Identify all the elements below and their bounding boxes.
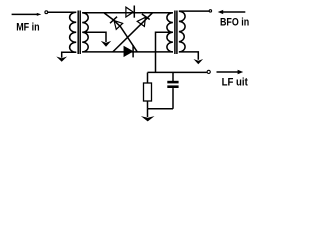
diode D2 on diagonal A bbox=[137, 14, 150, 27]
wire diagonal B bbox=[104, 13, 137, 52]
ground T1 center tap bbox=[101, 41, 111, 47]
svg-text:LF uit: LF uit bbox=[222, 77, 248, 89]
diode D4 bottom bbox=[124, 47, 132, 56]
input arrow BFO bbox=[222, 11, 245, 13]
wire bottom rail bbox=[82, 51, 173, 53]
wire diagonal A bbox=[113, 13, 153, 52]
terminal MF in bbox=[45, 11, 48, 14]
wire capacitor bottom lead bbox=[172, 88, 174, 109]
diode D3 on diagonal B bbox=[110, 17, 123, 30]
output arrowhead LF bbox=[238, 70, 244, 74]
wire resistor top lead bbox=[147, 73, 149, 84]
ground T1 primary bbox=[56, 57, 67, 62]
wire T1 center tap bbox=[83, 32, 106, 42]
input arrow MF bbox=[12, 13, 38, 15]
wire output node bbox=[148, 71, 207, 73]
terminal LF uit bbox=[207, 70, 210, 73]
output arrow LF bbox=[217, 71, 240, 73]
svg-text:MF in: MF in bbox=[16, 22, 40, 34]
capacitor C1 bbox=[167, 81, 178, 84]
wire MF terminal to T1 primary bbox=[48, 11, 76, 13]
wire T2 primary to BFO terminal bbox=[179, 10, 209, 12]
ground T2 primary bbox=[194, 59, 204, 64]
wire T1 primary bottom bbox=[62, 52, 76, 58]
transformer T2 secondary winding bbox=[167, 13, 173, 52]
terminal BFO in bbox=[209, 10, 211, 12]
transformer T1 primary winding bbox=[70, 12, 77, 52]
wire resistor bottom lead bbox=[147, 101, 149, 109]
transformer T1 core bbox=[77, 11, 79, 55]
ground output network bbox=[141, 116, 155, 121]
input arrowhead BFO bbox=[218, 10, 224, 14]
diode D1 top bbox=[126, 7, 133, 17]
wire T2 center tap bbox=[156, 32, 173, 72]
wire top rail bbox=[82, 12, 173, 14]
wire capacitor top lead bbox=[172, 73, 174, 82]
resistor R1 bbox=[144, 83, 152, 101]
input arrowhead MF bbox=[37, 13, 42, 16]
wire T2 primary bottom bbox=[179, 52, 198, 60]
transformer T2 core bbox=[174, 11, 176, 55]
wire ground stem bbox=[147, 109, 149, 117]
transformer T2 primary winding bbox=[179, 11, 185, 52]
transformer T1 secondary winding bbox=[82, 13, 88, 52]
wire ground bus bbox=[148, 108, 174, 110]
svg-text:BFO in: BFO in bbox=[220, 17, 249, 29]
